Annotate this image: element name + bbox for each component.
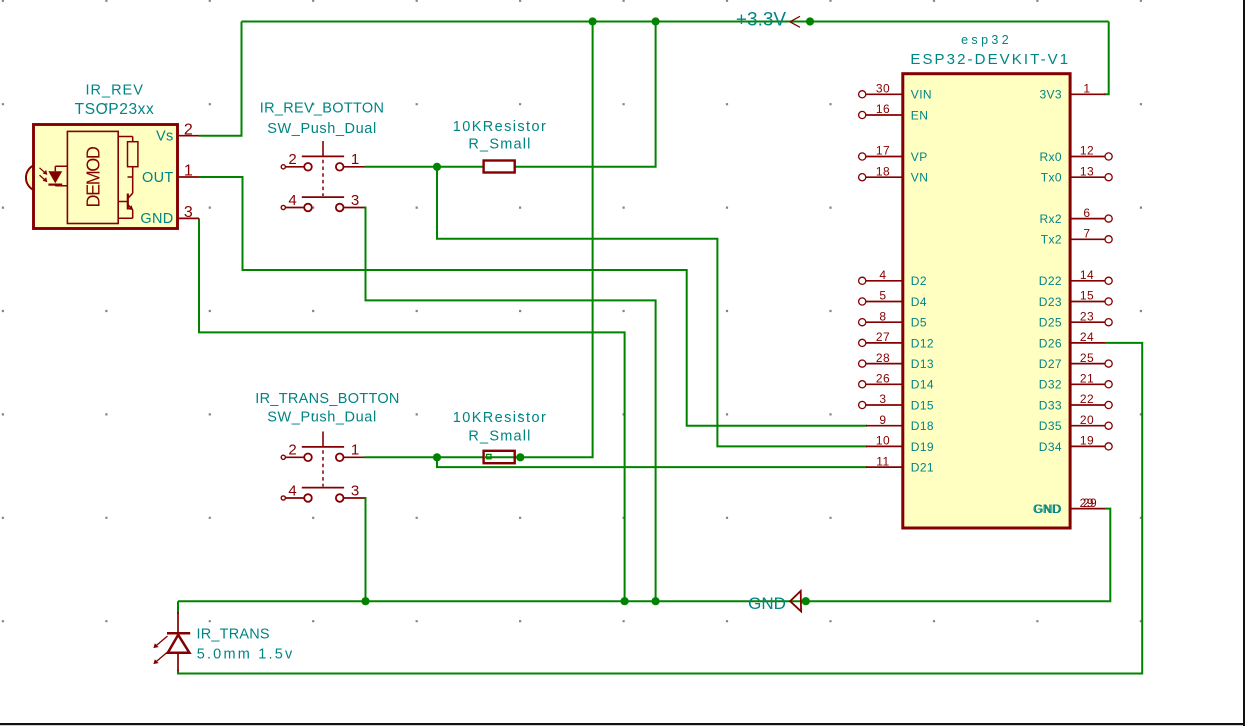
svg-text:D34: D34 [1039, 440, 1062, 454]
svg-text:21: 21 [1080, 372, 1094, 386]
svg-text:4: 4 [288, 192, 296, 209]
svg-text:1: 1 [1083, 82, 1090, 96]
svg-text:IR_REV: IR_REV [86, 82, 144, 98]
svg-text:5.0mm 1.5v: 5.0mm 1.5v [197, 647, 295, 663]
svg-text:DEMOD: DEMOD [83, 146, 103, 207]
svg-text:Rx0: Rx0 [1039, 150, 1062, 164]
svg-text:Vs: Vs [156, 129, 174, 145]
svg-text:GND: GND [1033, 502, 1061, 516]
svg-text:10KResistor: 10KResistor [453, 410, 547, 426]
svg-text:17: 17 [876, 144, 890, 158]
svg-text:7: 7 [1083, 227, 1090, 241]
svg-text:19: 19 [1080, 434, 1094, 448]
svg-text:3V3: 3V3 [1039, 88, 1062, 102]
svg-text:6: 6 [1083, 206, 1090, 220]
svg-text:27: 27 [876, 330, 890, 344]
svg-text:12: 12 [1080, 144, 1094, 158]
svg-text:D5: D5 [911, 316, 927, 330]
svg-text:D18: D18 [911, 419, 934, 433]
svg-text:OUT: OUT [142, 170, 174, 186]
svg-text:2: 2 [184, 121, 193, 138]
svg-text:22: 22 [1080, 392, 1094, 406]
svg-text:GND: GND [748, 594, 786, 613]
svg-text:+3.3V: +3.3V [736, 9, 787, 30]
svg-text:Rx2: Rx2 [1039, 212, 1062, 226]
svg-text:TSOP23xx: TSOP23xx [75, 101, 155, 118]
svg-text:1: 1 [351, 442, 359, 459]
svg-text:2: 2 [288, 151, 296, 168]
svg-text:D35: D35 [1039, 419, 1062, 433]
svg-text:14: 14 [1080, 268, 1094, 282]
svg-text:1: 1 [351, 151, 359, 168]
svg-text:4: 4 [879, 268, 886, 282]
svg-text:GND: GND [140, 211, 173, 227]
svg-text:1: 1 [184, 163, 193, 180]
svg-text:ESP32-DEVKIT-V1: ESP32-DEVKIT-V1 [910, 51, 1070, 68]
svg-text:13: 13 [1080, 164, 1094, 178]
svg-text:2: 2 [288, 442, 296, 459]
svg-text:D32: D32 [1039, 378, 1062, 392]
svg-text:29: 29 [1080, 496, 1094, 510]
svg-text:15: 15 [1080, 289, 1094, 303]
svg-text:D2: D2 [911, 274, 927, 288]
svg-text:D23: D23 [1039, 295, 1062, 309]
svg-text:3: 3 [351, 482, 359, 499]
svg-text:24: 24 [1080, 330, 1094, 344]
svg-text:D25: D25 [1039, 316, 1062, 330]
svg-text:3: 3 [351, 192, 359, 209]
svg-text:Tx2: Tx2 [1041, 233, 1062, 247]
svg-text:D12: D12 [911, 336, 934, 350]
svg-text:VIN: VIN [911, 88, 932, 102]
svg-text:16: 16 [876, 102, 890, 116]
svg-text:30: 30 [876, 82, 890, 96]
svg-text:SW_Push_Dual: SW_Push_Dual [267, 410, 377, 426]
svg-text:10KResistor: 10KResistor [453, 119, 547, 135]
svg-text:D19: D19 [911, 440, 934, 454]
svg-text:4: 4 [288, 482, 296, 499]
svg-text:D13: D13 [911, 357, 934, 371]
svg-text:3: 3 [184, 204, 193, 221]
svg-text:23: 23 [1080, 309, 1094, 323]
svg-text:esp32: esp32 [961, 33, 1012, 47]
svg-text:VN: VN [911, 171, 928, 185]
svg-text:D4: D4 [911, 295, 927, 309]
svg-text:5: 5 [879, 289, 886, 303]
svg-text:26: 26 [876, 372, 890, 386]
svg-text:10: 10 [876, 434, 890, 448]
svg-text:D14: D14 [911, 378, 934, 392]
svg-text:D21: D21 [911, 461, 934, 475]
svg-text:D33: D33 [1039, 398, 1062, 412]
svg-text:3: 3 [879, 392, 886, 406]
svg-text:D15: D15 [911, 398, 934, 412]
svg-text:SW_Push_Dual: SW_Push_Dual [267, 121, 377, 137]
svg-text:25: 25 [1080, 351, 1094, 365]
svg-text:9: 9 [879, 413, 886, 427]
svg-text:Tx0: Tx0 [1041, 171, 1062, 185]
svg-text:18: 18 [876, 164, 890, 178]
svg-text:EN: EN [911, 108, 928, 122]
svg-text:D26: D26 [1039, 336, 1062, 350]
svg-text:8: 8 [879, 309, 886, 323]
svg-text:20: 20 [1080, 413, 1094, 427]
svg-text:D22: D22 [1039, 274, 1062, 288]
svg-text:28: 28 [876, 351, 890, 365]
svg-text:R_Small: R_Small [468, 429, 531, 445]
svg-text:11: 11 [876, 454, 889, 468]
svg-text:IR_REV_BOTTON: IR_REV_BOTTON [260, 100, 385, 116]
svg-text:R_Small: R_Small [468, 137, 531, 153]
svg-text:IR_TRANS: IR_TRANS [197, 627, 270, 643]
svg-text:D27: D27 [1039, 357, 1062, 371]
svg-text:VP: VP [911, 150, 928, 164]
svg-text:IR_TRANS_BOTTON: IR_TRANS_BOTTON [255, 391, 399, 407]
